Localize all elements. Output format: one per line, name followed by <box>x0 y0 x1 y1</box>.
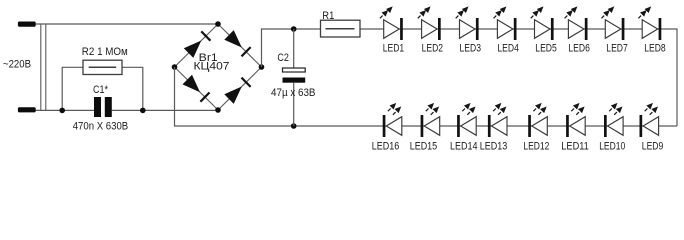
LED10 <box>604 103 623 137</box>
svg-text:C2: C2 <box>277 52 289 64</box>
diode D2 top-right <box>224 30 250 56</box>
svg-text:LED11: LED11 <box>561 141 589 153</box>
svg-text:LED5: LED5 <box>535 43 557 55</box>
LED9 <box>640 103 659 137</box>
wire R2 left riser <box>62 67 83 110</box>
LED2 <box>418 6 441 40</box>
junction node bridge bottom <box>215 107 221 113</box>
svg-text:~220В: ~220В <box>3 58 31 70</box>
LED14 <box>457 103 476 137</box>
LED1 <box>380 6 403 40</box>
diode D3 bottom-left <box>183 75 210 102</box>
svg-text:LED13: LED13 <box>480 141 508 153</box>
svg-text:R1: R1 <box>322 10 334 22</box>
svg-text:LED10: LED10 <box>599 141 625 153</box>
LED4 <box>494 6 517 40</box>
junction node bridge right <box>259 64 265 70</box>
wire bottom AC rail right <box>112 109 218 111</box>
resistor R2 <box>83 60 122 74</box>
junction node C1 right <box>140 108 146 114</box>
svg-text:LED9: LED9 <box>642 141 664 153</box>
diode D4 bottom-right <box>224 78 250 104</box>
junction node C2 bottom <box>291 123 297 129</box>
svg-text:LED1: LED1 <box>383 43 405 55</box>
svg-text:LED7: LED7 <box>606 43 628 55</box>
LED11 <box>566 103 585 137</box>
svg-text:C1*: C1* <box>93 84 109 96</box>
LED3 <box>456 6 479 40</box>
terminal pin top <box>18 22 36 27</box>
svg-text:КЦ407: КЦ407 <box>194 60 230 72</box>
diode D1 top-left <box>184 31 211 58</box>
LED7 <box>602 6 625 40</box>
wire R2 right riser <box>122 67 143 110</box>
LED15 <box>421 103 440 137</box>
LED16 <box>383 103 402 137</box>
svg-text:LED16: LED16 <box>372 141 400 153</box>
wire bottom AC rail left <box>36 109 95 111</box>
junction node bridge left <box>172 64 178 70</box>
bridge Br1 diamond edges <box>175 24 262 110</box>
LED13 <box>488 103 507 137</box>
capacitor C2 <box>283 29 306 126</box>
wire negative rail <box>175 67 678 126</box>
LED5 <box>531 6 554 40</box>
wire positive riser <box>262 29 321 67</box>
wire vertical line 2 <box>45 24 47 110</box>
svg-text:LED4: LED4 <box>497 43 519 55</box>
wire vertical line 1 <box>40 24 42 110</box>
svg-text:R2 1 МОм: R2 1 МОм <box>82 46 128 58</box>
junction node C2 top <box>291 26 297 32</box>
svg-text:LED8: LED8 <box>644 43 666 55</box>
LED12 <box>528 103 547 137</box>
svg-text:47µ x 63В: 47µ x 63В <box>271 87 316 99</box>
wire top AC rail <box>36 23 219 25</box>
resistor R1 <box>321 20 361 37</box>
svg-text:470n X 630В: 470n X 630В <box>73 120 129 132</box>
svg-text:LED15: LED15 <box>410 141 438 153</box>
capacitor C1 <box>94 97 112 117</box>
wire positive rail <box>360 29 677 126</box>
svg-text:LED2: LED2 <box>422 43 444 55</box>
svg-text:LED6: LED6 <box>568 43 590 55</box>
junction node C1 left <box>59 108 65 114</box>
LED8 <box>638 6 661 40</box>
junction node bridge top <box>215 21 221 27</box>
svg-text:LED14: LED14 <box>450 141 478 153</box>
LED6 <box>565 6 588 40</box>
svg-text:LED12: LED12 <box>523 141 549 153</box>
svg-text:LED3: LED3 <box>460 43 482 55</box>
terminal pin bottom <box>18 107 36 112</box>
